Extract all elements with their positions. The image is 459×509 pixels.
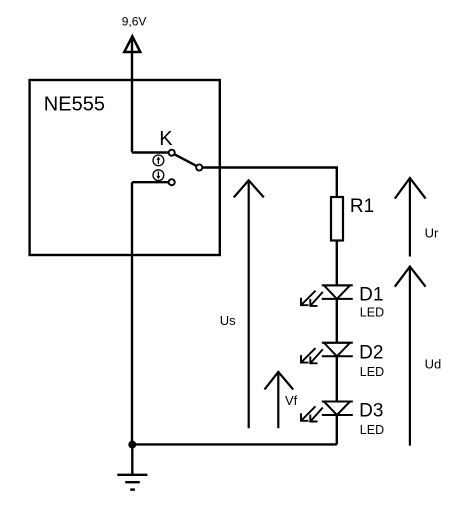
svg-text:NE555: NE555 [44,94,105,116]
svg-text:LED: LED [360,306,384,320]
IC U1 NE555 box [30,80,220,255]
arrow Ur [395,178,426,257]
junction dot [128,441,136,449]
wire lower throw down to ground rail [131,182,133,444]
resistor R1 [331,197,343,241]
wire upper throw [132,151,168,153]
switch K upper contact [169,150,175,156]
wire supply to switch common [131,37,133,153]
wire D3 to ground rail [336,415,338,444]
switch direction up annotation [153,155,164,166]
arrow Us [234,180,264,428]
arrow Vf [265,372,294,428]
svg-text:Ur: Ur [425,226,439,241]
svg-text:D2: D2 [359,343,383,364]
svg-text:Us: Us [220,313,236,328]
switch direction down annotation [153,170,164,181]
LED D1 emission arrows [301,291,323,306]
LED D2 [322,343,353,357]
LED D1 [322,285,353,299]
svg-text:R1: R1 [350,196,374,217]
wire lower throw [132,181,168,183]
supply arrow 9,6V [124,36,140,52]
wire ground rail [132,443,337,445]
LED D3 [322,402,353,416]
svg-text:Vf: Vf [285,393,298,408]
svg-text:D3: D3 [359,400,383,421]
switch K blade [175,154,197,166]
wire common to R1 [203,168,337,198]
wire R1 to D1 [336,241,338,286]
arrow Ud [395,267,426,446]
LED D2 emission arrows [301,348,323,363]
switch K lower contact [169,179,175,185]
wire D2 to D3 [336,356,338,401]
wire D1 to D2 [336,299,338,343]
LED D3 emission arrows [301,406,323,421]
svg-text:K: K [159,128,173,150]
switch K common contact [196,164,202,170]
ground [117,444,147,489]
svg-text:D1: D1 [359,284,383,305]
svg-text:9,6V: 9,6V [122,15,147,29]
svg-text:Ud: Ud [425,357,442,372]
svg-text:LED: LED [360,423,384,437]
svg-text:LED: LED [360,365,384,379]
